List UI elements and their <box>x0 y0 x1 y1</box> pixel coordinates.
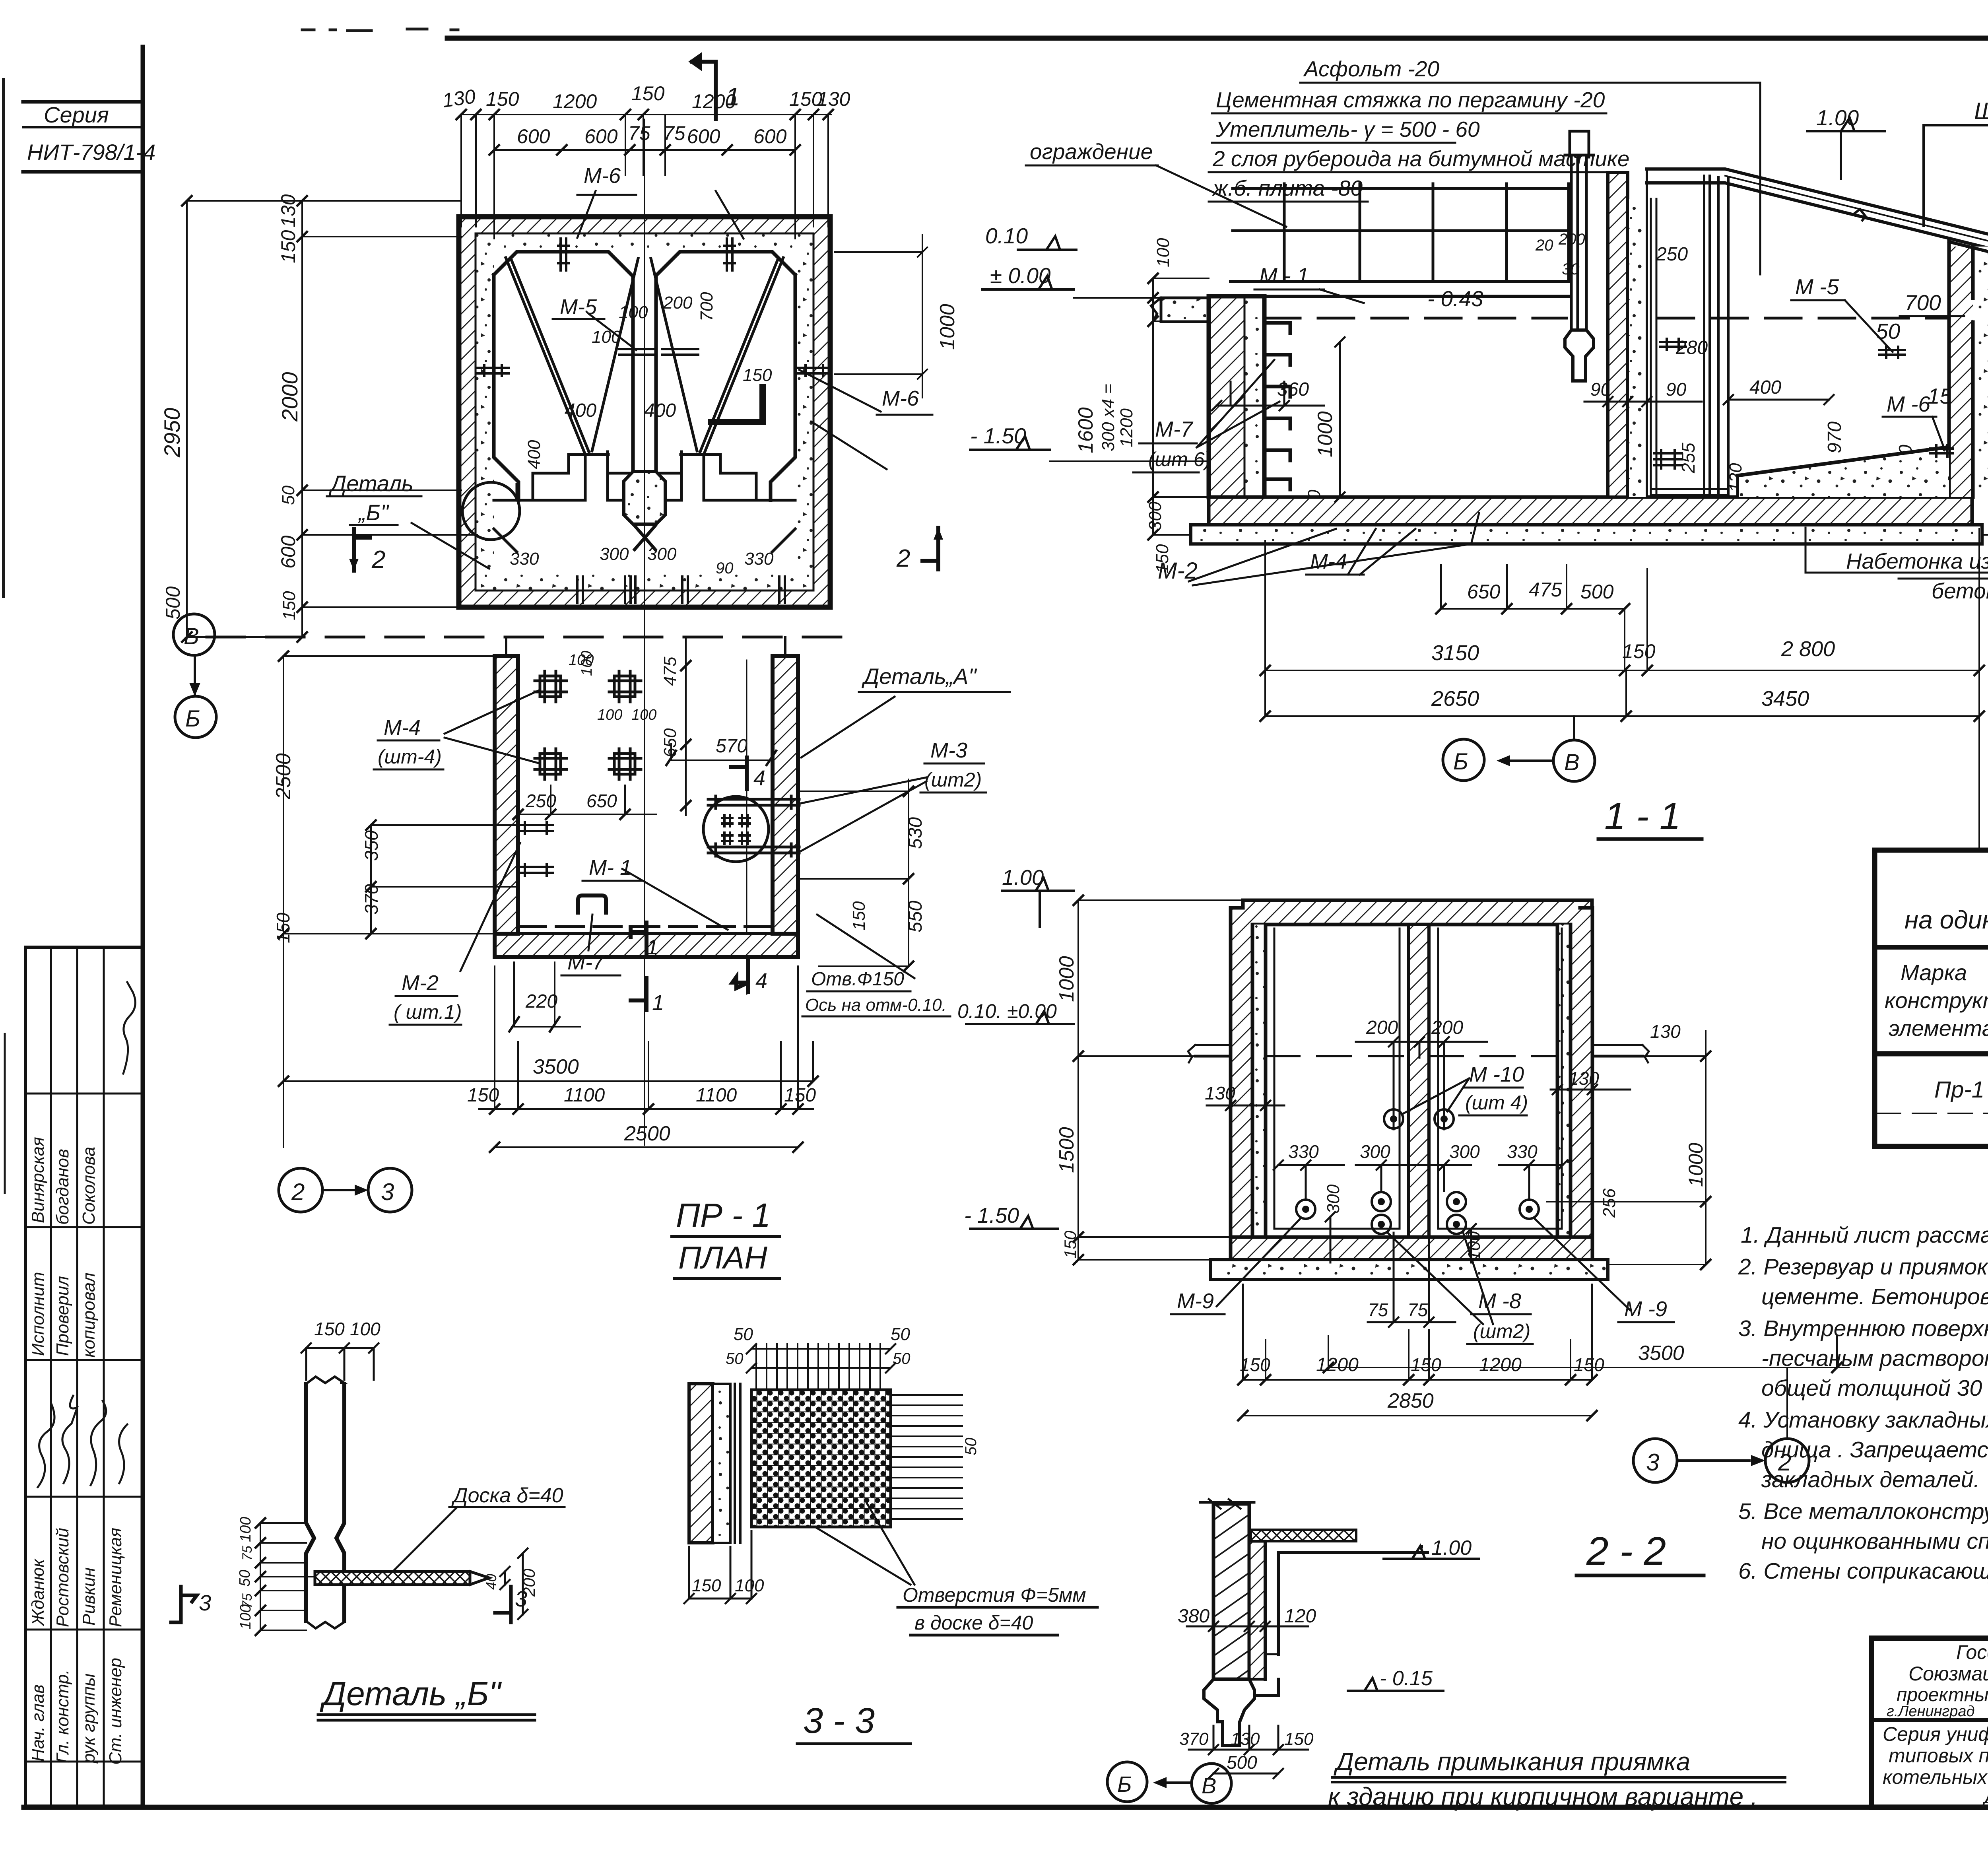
svg-text:1.00: 1.00 <box>1431 1536 1472 1560</box>
570 dim <box>671 744 771 760</box>
paper scan edge artifacts <box>2 80 5 596</box>
svg-text:М-6: М-6 <box>882 387 919 410</box>
330/300 dims lower <box>1274 1160 1344 1199</box>
svg-text:В: В <box>1564 750 1580 775</box>
tank wall lines <box>1704 176 1728 495</box>
svg-text:рук группы: рук группы <box>79 1673 99 1764</box>
svg-text:2650: 2650 <box>1431 687 1479 711</box>
hole circle on left wall <box>462 482 520 540</box>
svg-text:М -5: М -5 <box>1795 274 1839 299</box>
M-3 flat bars crossing right wall <box>708 796 799 808</box>
svg-text:элемента: элемента <box>1889 1016 1988 1041</box>
svg-text:0.10. ±0.00: 0.10. ±0.00 <box>957 1000 1057 1022</box>
svg-text:300: 300 <box>1324 1184 1343 1214</box>
svg-text:2500: 2500 <box>624 1122 670 1145</box>
funnel chamber right <box>651 258 783 500</box>
svg-text:Соколова: Соколова <box>79 1147 99 1225</box>
elevation flags left <box>1018 236 1077 250</box>
svg-text:Набетонка из тощего: Набетонка из тощего <box>1846 549 1988 573</box>
svg-text:130: 130 <box>1205 1083 1235 1103</box>
rebar anchors (M-6) on top wall <box>558 239 569 270</box>
svg-text:М-7: М-7 <box>567 950 605 974</box>
svg-text:Ривкин: Ривкин <box>79 1568 99 1626</box>
svg-text:3: 3 <box>199 1590 211 1615</box>
svg-text:2: 2 <box>371 546 385 573</box>
svg-text:150: 150 <box>1622 640 1656 662</box>
svg-text:М-4: М-4 <box>1310 550 1347 573</box>
3150/150/2800 row <box>1265 529 1979 855</box>
svg-text:150: 150 <box>1284 1729 1314 1749</box>
svg-text:М-7: М-7 <box>1155 417 1194 441</box>
svg-text:1200: 1200 <box>553 90 597 113</box>
svg-text:на один конструктивный моно: на один конструктивный монолитный элемен… <box>1905 905 1988 934</box>
svg-text:380: 380 <box>1178 1606 1209 1627</box>
svg-text:М-5: М-5 <box>560 295 597 319</box>
left elevation flags <box>1002 878 1074 927</box>
seriya block top-left margin <box>23 102 155 172</box>
L-shaped rebar in right chamber <box>711 387 763 422</box>
svg-text:40: 40 <box>483 1574 499 1590</box>
inner face chamber left (chamfered octagon) <box>494 252 633 500</box>
svg-text:1100: 1100 <box>564 1085 605 1106</box>
svg-text:75: 75 <box>1408 1299 1428 1320</box>
svg-text:Отв.Ф150: Отв.Ф150 <box>811 969 904 990</box>
svg-text:150: 150 <box>467 1085 499 1106</box>
formwork lines <box>1651 199 1656 495</box>
leaders M-10 <box>1404 1078 1469 1113</box>
bottom dims <box>514 962 580 1027</box>
svg-text:330: 330 <box>510 549 539 569</box>
svg-text:75: 75 <box>663 122 685 144</box>
left dims <box>301 201 303 637</box>
svg-text:- 1.50: - 1.50 <box>964 1204 1019 1228</box>
svg-text:богданов: богданов <box>53 1149 72 1225</box>
svg-text:3: 3 <box>1646 1449 1659 1476</box>
svg-text:4: 4 <box>753 766 765 790</box>
svg-text:Союзмашстройпроект: Союзмашстройпроект <box>1908 1663 1988 1685</box>
rebar circles <box>1296 1109 1539 1234</box>
anchor plates on left wall inner <box>518 822 553 834</box>
svg-text:„Б": „Б" <box>358 500 389 525</box>
400 dim right of tank <box>1724 395 1834 404</box>
svg-text:1 - 1: 1 - 1 <box>1604 795 1681 837</box>
svg-text:600: 600 <box>584 125 618 148</box>
svg-text:100: 100 <box>237 1604 254 1630</box>
svg-text:Б: Б <box>1453 749 1468 775</box>
bottom chamfer corners <box>494 484 795 552</box>
svg-text:3500: 3500 <box>1638 1342 1684 1365</box>
svg-text:2 слоя рубероида на битумно: 2 слоя рубероида на битумной мастике <box>1212 146 1629 171</box>
svg-text:общей толщиной 30 мм.: общей толщиной 30 мм. <box>1761 1375 1988 1401</box>
svg-text:120: 120 <box>1284 1606 1316 1627</box>
svg-text:150: 150 <box>692 1576 721 1595</box>
650/475/500 dims <box>1441 565 1625 609</box>
svg-text:М- 1: М- 1 <box>589 856 632 880</box>
svg-text:200: 200 <box>1366 1017 1398 1038</box>
svg-text:ограждение: ограждение <box>1030 139 1153 164</box>
underlines/leaders for text block <box>1300 83 1760 274</box>
elevation flags <box>1384 1546 1479 1559</box>
svg-text:М -10: М -10 <box>1469 1062 1524 1086</box>
frame left border <box>141 47 145 1807</box>
svg-text:150: 150 <box>784 1085 816 1106</box>
svg-text:Деталь примыкания приямка: Деталь примыкания приямка <box>1334 1747 1690 1776</box>
130 dims small <box>1207 1082 1284 1110</box>
svg-text:300: 300 <box>1360 1141 1390 1162</box>
svg-text:130: 130 <box>817 88 850 110</box>
svg-text:600: 600 <box>517 125 550 148</box>
svg-text:250: 250 <box>1656 244 1688 265</box>
svg-text:1200: 1200 <box>1479 1354 1522 1375</box>
right wall <box>1571 908 1592 1237</box>
svg-text:г.Ленинград: г.Ленинград <box>1887 1703 1974 1720</box>
svg-text:М-6: М-6 <box>584 164 621 188</box>
central wall <box>1409 925 1429 1237</box>
svg-text:ПЛАН: ПЛАН <box>678 1240 767 1275</box>
svg-text:2500: 2500 <box>272 753 295 800</box>
svg-text:100: 100 <box>579 651 595 676</box>
wires going up <box>756 1344 880 1390</box>
svg-text:570: 570 <box>716 736 747 757</box>
circles 3,2 <box>1633 1367 1809 1482</box>
svg-text:Доска δ=40: Доска δ=40 <box>451 1484 563 1507</box>
svg-text:Марка: Марка <box>1901 960 1967 985</box>
svg-text:М-3: М-3 <box>930 738 967 762</box>
svg-text:Отверстия Ф=5мм: Отверстия Ф=5мм <box>903 1584 1086 1606</box>
leader detail B circle <box>412 523 489 569</box>
svg-text:4: 4 <box>755 969 767 993</box>
svg-text:75: 75 <box>1368 1299 1388 1320</box>
svg-text:75: 75 <box>628 122 650 144</box>
svg-text:4. Установку закладных детал: 4. Установку закладных деталей производи… <box>1738 1407 1988 1433</box>
section cut flags <box>631 923 646 954</box>
svg-text:200: 200 <box>1431 1017 1463 1038</box>
svg-text:600: 600 <box>687 125 720 148</box>
svg-text:Ростовский: Ростовский <box>53 1528 72 1627</box>
svg-text:250: 250 <box>525 791 556 811</box>
svg-text:6. Стены соприкасающие с гр: 6. Стены соприкасающие с грунтом, обмаза… <box>1738 1558 1988 1584</box>
M-2 leader lines going to anchors <box>1471 513 1479 544</box>
svg-text:- 1.50: - 1.50 <box>970 423 1026 448</box>
svg-text:500: 500 <box>1227 1752 1257 1773</box>
bottom anchors <box>577 577 785 603</box>
svg-text:650: 650 <box>586 791 617 811</box>
svg-text:330: 330 <box>1507 1141 1538 1162</box>
svg-text:500: 500 <box>162 586 184 620</box>
svg-text:(шт2): (шт2) <box>924 769 982 791</box>
svg-text:330: 330 <box>744 549 774 569</box>
svg-text:ПР - 1: ПР - 1 <box>676 1197 771 1234</box>
svg-text:150: 150 <box>280 591 299 620</box>
svg-text:150: 150 <box>743 365 772 385</box>
svg-text:50: 50 <box>962 1438 980 1456</box>
svg-text:1: 1 <box>652 991 664 1015</box>
svg-text:75: 75 <box>240 1546 255 1561</box>
svg-text:130: 130 <box>1231 1729 1260 1749</box>
svg-text:3. Внутреннюю поверхность ст: 3. Внутреннюю поверхность стен и днища т… <box>1738 1316 1988 1341</box>
svg-text:400: 400 <box>524 440 544 469</box>
left dim column <box>1152 278 1154 535</box>
left dim column <box>1078 900 1243 1260</box>
formwork inner lines <box>1274 928 1562 1229</box>
svg-text:Деталь: Деталь <box>328 471 414 496</box>
bottom dims <box>1189 1726 1308 1754</box>
svg-text:2: 2 <box>896 545 910 572</box>
svg-text:(шт 4): (шт 4) <box>1465 1092 1528 1114</box>
svg-text:150: 150 <box>1574 1354 1604 1375</box>
svg-text:300: 300 <box>1449 1141 1480 1162</box>
svg-text:1. Данный лист рассматривать: 1. Данный лист рассматривать совместно с… <box>1741 1222 1988 1248</box>
anchors in section <box>1879 347 1905 358</box>
M-7 hooks on left wall <box>1266 323 1290 489</box>
left wall <box>1231 908 1252 1237</box>
svg-text:90: 90 <box>716 559 734 577</box>
svg-text:Серия: Серия <box>44 102 109 127</box>
svg-text:Ременицкая: Ременицкая <box>106 1528 125 1627</box>
svg-text:В: В <box>184 624 199 649</box>
svg-text:650: 650 <box>1467 581 1501 603</box>
svg-text:150: 150 <box>486 88 519 110</box>
svg-text:100: 100 <box>1464 1231 1484 1261</box>
svg-text:( шт.1): ( шт.1) <box>394 1001 462 1023</box>
nabetonka slope <box>1738 447 1949 497</box>
svg-text:2. Резервуар и приямок выполн: 2. Резервуар и приямок выполнить из бето… <box>1738 1254 1988 1280</box>
svg-text:Проверил: Проверил <box>53 1276 72 1356</box>
leader M-6 top <box>577 191 744 239</box>
svg-text:М-2: М-2 <box>402 971 439 995</box>
svg-text:50: 50 <box>279 486 298 505</box>
svg-text:(шт 6): (шт 6) <box>1148 448 1211 470</box>
svg-text:550: 550 <box>905 901 926 932</box>
svg-text:-песчаным раствором состав: -песчаным раствором состав 1:2 с добавко… <box>1761 1346 1988 1371</box>
svg-text:150: 150 <box>277 230 299 263</box>
right dims <box>500 1567 510 1589</box>
svg-text:М-4: М-4 <box>384 716 421 740</box>
svg-text:цементе. Бетонирование произ: цементе. Бетонирование производить с обя… <box>1761 1284 1988 1309</box>
svg-text:200: 200 <box>663 293 693 313</box>
svg-text:100: 100 <box>597 707 622 723</box>
circles B V <box>1107 1762 1147 1802</box>
floor with xmesh <box>1251 1530 1356 1541</box>
svg-text:90: 90 <box>1666 379 1687 400</box>
svg-text:150: 150 <box>1153 544 1172 573</box>
right wall <box>1949 247 1973 497</box>
svg-text:700: 700 <box>1905 290 1941 315</box>
svg-text:Деталь „Б": Деталь „Б" <box>320 1675 502 1712</box>
svg-text:600: 600 <box>277 535 299 569</box>
svg-text:М -9: М -9 <box>1624 1297 1667 1321</box>
axis circles 2,3 <box>279 1168 412 1212</box>
svg-text:5. Все металлоконструкции ус: 5. Все металлоконструкции устанавливаютс… <box>1738 1499 1988 1524</box>
leaders M-9/M-8 <box>1217 1219 1300 1306</box>
svg-text:- 0.15: - 0.15 <box>1380 1667 1433 1690</box>
wall stipple band <box>476 233 813 590</box>
svg-text:М -8: М -8 <box>1478 1289 1521 1313</box>
200/200 dims <box>1356 1037 1487 1129</box>
svg-text:(шт-4): (шт-4) <box>378 746 442 768</box>
svg-text:100: 100 <box>619 303 648 322</box>
svg-text:1000: 1000 <box>1055 956 1078 1002</box>
step profiles at funnel bottoms <box>533 455 756 500</box>
svg-text:400: 400 <box>644 400 676 421</box>
top dim row 2 <box>494 149 795 151</box>
svg-text:2850: 2850 <box>1387 1389 1434 1412</box>
svg-text:0.10: 0.10 <box>985 223 1028 248</box>
svg-text:100: 100 <box>237 1517 254 1542</box>
svg-text:котельных с котлами: котельных с котлами <box>1883 1766 1988 1788</box>
svg-text:100: 100 <box>631 707 656 723</box>
top dims <box>301 1343 379 1380</box>
svg-text:3: 3 <box>381 1179 394 1205</box>
fence <box>1284 184 1569 282</box>
left exterior slab at 0.00 <box>1161 298 1231 322</box>
leader M-6 right <box>799 370 881 412</box>
svg-text:530: 530 <box>905 817 926 849</box>
leader M-5 <box>589 314 636 350</box>
svg-text:150: 150 <box>631 82 665 105</box>
svg-text:2: 2 <box>291 1179 305 1205</box>
svg-text:150: 150 <box>1411 1354 1441 1375</box>
bottom dims <box>1368 1233 1455 1327</box>
ticks row1 <box>456 110 833 119</box>
central hatched column <box>1608 173 1628 497</box>
svg-text:НИТ-798/1-4: НИТ-798/1-4 <box>27 140 155 165</box>
left vertical dims <box>283 656 371 1147</box>
svg-text:Гл. констр.: Гл. констр. <box>53 1669 72 1763</box>
Sh-1 panel center <box>1571 155 1586 330</box>
svg-text:Серия унифицированных: Серия унифицированных <box>1883 1723 1988 1745</box>
90-90 dims <box>1584 378 1702 406</box>
svg-text:50: 50 <box>891 1325 910 1344</box>
2650/3450 row <box>1265 670 1979 716</box>
rebar squares M-4 <box>535 671 641 779</box>
svg-text:350: 350 <box>361 830 382 861</box>
svg-text:20: 20 <box>1535 237 1553 254</box>
svg-text:2000: 2000 <box>277 372 302 422</box>
svg-text:130: 130 <box>441 85 477 112</box>
svg-text:300: 300 <box>1145 501 1165 531</box>
1.00 flag <box>1807 118 1885 179</box>
outer contour <box>459 217 830 607</box>
svg-text:в доске δ=40: в доске δ=40 <box>914 1612 1033 1634</box>
label <box>394 1507 565 1571</box>
roof slab sloped <box>1647 169 1988 253</box>
wall centre dashed stubs <box>506 637 785 676</box>
svg-text:130: 130 <box>277 194 299 227</box>
svg-text:100: 100 <box>1153 238 1173 267</box>
B-V circles <box>1443 739 1484 781</box>
wall hatch band <box>459 217 830 607</box>
svg-text:конструкт.: конструкт. <box>1885 988 1988 1013</box>
svg-text:50: 50 <box>237 1570 253 1587</box>
svg-text:360: 360 <box>1277 379 1309 400</box>
svg-text:300: 300 <box>600 544 629 564</box>
svg-text:Утеплитель- γ = 500 - 60: Утеплитель- γ = 500 - 60 <box>1215 117 1480 142</box>
svg-text:типовых проектов: типовых проектов <box>1889 1744 1988 1767</box>
inner face chamber right <box>656 252 795 500</box>
leaders <box>445 690 540 763</box>
svg-text:1200: 1200 <box>1117 408 1136 447</box>
svg-text:2 - 2: 2 - 2 <box>1586 1529 1666 1573</box>
svg-text:50: 50 <box>726 1350 744 1367</box>
svg-text:370: 370 <box>1179 1729 1209 1749</box>
svg-text:130: 130 <box>1650 1021 1681 1042</box>
central dividing wall <box>633 276 656 472</box>
svg-text:3450: 3450 <box>1761 687 1809 711</box>
bottom sump between chambers (octagon) <box>624 472 665 524</box>
svg-text:но оцинкованными способом м: но оцинкованными способом металлизации. <box>1761 1529 1988 1554</box>
top dim row 1 <box>461 114 831 115</box>
right vertical dims <box>799 779 909 966</box>
svg-text:130: 130 <box>1569 1068 1599 1089</box>
svg-text:2950: 2950 <box>159 408 184 458</box>
svg-text:1000: 1000 <box>1685 1143 1707 1187</box>
svg-text:к зданию при кирпичном вари: к зданию при кирпичном варианте . <box>1328 1782 1758 1811</box>
svg-text:Щ-1: Щ-1 <box>1974 98 1988 124</box>
svg-text:днища . Запрещается оставлять: днища . Запрещается оставлять гнезда для… <box>1761 1437 1988 1463</box>
svg-text:1500: 1500 <box>1055 1127 1078 1173</box>
svg-text:Б: Б <box>1117 1771 1132 1797</box>
svg-text:2 800: 2 800 <box>1781 637 1835 661</box>
svg-text:400: 400 <box>565 400 596 421</box>
left wall <box>1209 296 1244 497</box>
svg-text:1000: 1000 <box>1314 411 1337 457</box>
svg-text:475: 475 <box>1529 579 1562 601</box>
wires going right <box>891 1395 962 1519</box>
dims 380/120 <box>1187 1606 1308 1631</box>
svg-text:300 х4 =: 300 х4 = <box>1099 384 1118 451</box>
svg-text:150: 150 <box>273 913 293 943</box>
svg-text:1: 1 <box>646 935 658 959</box>
section flag 1 top <box>692 56 716 119</box>
svg-text:3 - 3: 3 - 3 <box>803 1701 875 1741</box>
svg-text:Жданюк: Жданюк <box>28 1558 48 1626</box>
signature table bottom-left margin <box>25 947 143 1806</box>
wall outlines <box>495 656 798 957</box>
svg-text:300: 300 <box>647 544 677 564</box>
svg-text:100: 100 <box>350 1319 381 1339</box>
svg-text:100: 100 <box>592 327 621 347</box>
base slab <box>1210 1260 1608 1280</box>
svg-text:3500: 3500 <box>533 1055 579 1078</box>
left wall band <box>495 656 518 934</box>
hatch floor <box>1209 497 1972 525</box>
leaders to label <box>815 1503 914 1585</box>
frame bottom border <box>24 1805 1988 1810</box>
svg-text:1200: 1200 <box>692 90 736 113</box>
svg-text:Цементная стяжка по пергамин: Цементная стяжка по пергамину -20 <box>1216 87 1605 112</box>
svg-text:Ст. инженер: Ст. инженер <box>106 1658 125 1765</box>
dashed level line + ledges <box>1195 1055 1642 1058</box>
svg-text:50: 50 <box>893 1350 911 1367</box>
svg-text:3150: 3150 <box>1431 641 1479 665</box>
svg-text:1100: 1100 <box>696 1085 737 1106</box>
svg-text:1200: 1200 <box>1316 1354 1359 1375</box>
right dim column <box>1547 1031 1706 1265</box>
svg-text:Исполнит: Исполнит <box>28 1272 48 1356</box>
svg-text:закладных деталей.: закладных деталей. <box>1761 1467 1980 1492</box>
svg-text:700: 700 <box>697 292 716 321</box>
svg-text:150: 150 <box>849 901 869 930</box>
svg-text:500: 500 <box>1580 581 1614 603</box>
Sh-1 leader <box>1924 125 1988 226</box>
svg-text:Асфольт -20: Асфольт -20 <box>1303 56 1439 81</box>
svg-text:Деталь„А": Деталь„А" <box>861 664 977 689</box>
svg-text:650: 650 <box>660 728 680 758</box>
svg-text:копировал: копировал <box>79 1272 99 1358</box>
svg-text:400: 400 <box>1749 377 1781 398</box>
dashed level line <box>1264 317 1948 320</box>
